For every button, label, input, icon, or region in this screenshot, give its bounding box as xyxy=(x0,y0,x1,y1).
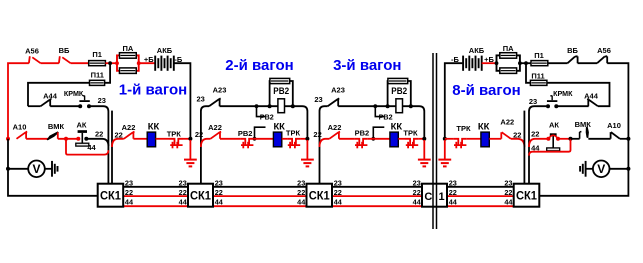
wire xyxy=(445,138,454,140)
svg-text:V: V xyxy=(597,162,605,176)
svg-text:А10: А10 xyxy=(13,123,27,132)
wire 23 - riser R' from KRMK to SK1 #5 xyxy=(529,106,546,184)
wire - P11 left lead to bus node xyxy=(526,63,530,83)
fuse block PA (two parallel fuses) xyxy=(117,55,139,70)
ground - car8 TRK xyxy=(444,140,446,159)
svg-text:ВБ: ВБ xyxy=(567,46,578,55)
wire - branch down to P11 xyxy=(105,63,111,83)
svg-text:СК1: СК1 xyxy=(516,189,537,203)
svg-text:РВ2: РВ2 xyxy=(238,129,253,138)
wire xyxy=(338,105,387,107)
contactor coil KK (car2) xyxy=(273,132,281,147)
thermal contact TRK (car8) xyxy=(454,139,467,145)
wire - riser L2 (car1 feed) xyxy=(111,111,113,184)
svg-text:А56: А56 xyxy=(597,46,611,55)
svg-text:44: 44 xyxy=(504,198,513,207)
button KRMK xyxy=(78,104,82,108)
switch A10 xyxy=(6,137,10,141)
svg-text:44: 44 xyxy=(413,198,422,207)
svg-text:22: 22 xyxy=(313,130,321,139)
svg-text:23: 23 xyxy=(449,178,457,187)
svg-text:КРМК: КРМК xyxy=(553,89,573,98)
wire xyxy=(301,138,308,140)
wire xyxy=(105,62,117,64)
wire xyxy=(526,62,531,64)
wire xyxy=(368,138,390,140)
svg-text:22: 22 xyxy=(449,188,457,197)
wire xyxy=(293,106,308,139)
switch A22 (car2) xyxy=(210,132,221,139)
button KRMK (right) xyxy=(546,104,550,108)
svg-text:АКБ: АКБ xyxy=(157,46,173,55)
voltmeter V (right) xyxy=(626,167,630,171)
svg-text:3-й вагон: 3-й вагон xyxy=(333,57,401,74)
svg-text:2-й вагон: 2-й вагон xyxy=(225,57,293,74)
svg-text:23: 23 xyxy=(529,97,537,106)
contactor coil KK (car1) xyxy=(147,132,155,147)
switch A22 (car8, mirrored) xyxy=(501,132,511,139)
relay RV2 (car3): resistor + coil xyxy=(388,81,411,106)
svg-text:А23: А23 xyxy=(331,86,345,95)
wire - left supply bus (red) from left edge column xyxy=(8,63,29,139)
wire xyxy=(467,138,481,140)
svg-text:П11: П11 xyxy=(531,71,544,80)
svg-text:СК1: СК1 xyxy=(309,189,330,203)
wire 44 bus (red) xyxy=(123,205,188,207)
svg-text:23: 23 xyxy=(98,96,106,105)
fuse block PA (right) xyxy=(497,55,520,70)
battery AKB xyxy=(154,56,156,71)
svg-text:РВ2: РВ2 xyxy=(379,113,393,122)
svg-text:КК: КК xyxy=(273,121,285,132)
contact RV2 (car3, wire23->wire22) xyxy=(375,106,384,116)
svg-text:П1: П1 xyxy=(92,50,102,59)
svg-text:ТРК: ТРК xyxy=(167,130,182,139)
svg-text:СК1: СК1 xyxy=(100,189,121,203)
wire 22 - AK to connector riser L1 xyxy=(86,139,108,146)
node - 44 tap xyxy=(64,137,68,141)
svg-text:ВМК: ВМК xyxy=(48,122,65,131)
svg-text:23: 23 xyxy=(413,178,421,187)
wire xyxy=(588,138,610,140)
voltmeter V (left) xyxy=(6,167,10,171)
svg-text:22: 22 xyxy=(195,130,203,139)
svg-text:44: 44 xyxy=(531,143,540,152)
svg-text:1-й вагон: 1-й вагон xyxy=(119,82,187,99)
node xyxy=(422,137,426,141)
svg-text:23: 23 xyxy=(334,178,342,187)
connector box SK1 #1 xyxy=(98,184,124,207)
node xyxy=(524,61,528,65)
connector AK (right, plugged) xyxy=(550,133,557,136)
ground - voltmeter left xyxy=(51,161,53,177)
svg-text:РВ2: РВ2 xyxy=(355,129,370,138)
svg-text:АК: АК xyxy=(549,121,559,130)
connector box SK1 #3 xyxy=(307,184,333,207)
svg-text:ТРК: ТРК xyxy=(456,124,471,133)
node xyxy=(626,137,630,141)
svg-text:КРМК: КРМК xyxy=(64,89,84,98)
svg-text:ВБ: ВБ xyxy=(59,46,70,55)
svg-text:44: 44 xyxy=(334,198,343,207)
wire 23 - riser to SK1 #3 and car3 wire 23 xyxy=(320,106,328,184)
svg-text:А10: А10 xyxy=(607,121,621,130)
wire xyxy=(254,138,274,140)
svg-text:С: С xyxy=(424,191,432,203)
wire xyxy=(557,105,589,107)
wire - battery return to car1 right column xyxy=(174,63,190,139)
wire - P11 row to A44 branch corner xyxy=(28,83,90,106)
wire xyxy=(419,138,425,140)
switch A23 (car2) xyxy=(209,98,221,106)
svg-text:СК1: СК1 xyxy=(190,189,211,203)
svg-text:-Б: -Б xyxy=(451,55,459,64)
svg-text:КК: КК xyxy=(148,121,160,132)
fuse P1 xyxy=(89,61,106,66)
node xyxy=(305,137,309,141)
svg-text:22: 22 xyxy=(179,188,187,197)
svg-text:23: 23 xyxy=(504,178,512,187)
wire xyxy=(220,105,270,107)
svg-text:ТРК: ТРК xyxy=(403,129,418,138)
switch A44 xyxy=(28,105,41,107)
wire 23 - KRMK to connector riser L1 xyxy=(89,106,108,184)
svg-text:А44: А44 xyxy=(584,92,599,101)
svg-text:44: 44 xyxy=(215,198,224,207)
svg-text:23: 23 xyxy=(314,95,322,104)
ground - car3 TRK xyxy=(423,140,425,159)
svg-text:22: 22 xyxy=(504,188,512,197)
wire - right column + bottom return to SK1 #5 xyxy=(539,139,628,196)
switch A22 (car1) xyxy=(124,132,135,139)
wire xyxy=(489,138,501,140)
svg-text:23: 23 xyxy=(125,178,133,187)
fuse P1 (right) xyxy=(531,61,548,66)
svg-text:44: 44 xyxy=(87,143,96,152)
wire - left column + bottom return to SK1 xyxy=(8,139,98,196)
wire 22 - red from riser R' to AK xyxy=(529,139,548,147)
svg-text:А56: А56 xyxy=(25,46,39,55)
svg-text:ВМК: ВМК xyxy=(575,120,592,129)
wire 22 - red branch from L2 to car1 xyxy=(112,139,124,147)
switch A22 (car3) xyxy=(329,132,340,139)
svg-text:РВ2: РВ2 xyxy=(273,86,289,97)
contactor coil KK (car8) xyxy=(481,132,489,147)
wire 22 bus (red) xyxy=(123,195,188,197)
wire 23 - riser to SK1 #2 and car2 wire 23 xyxy=(201,106,209,184)
wire xyxy=(339,138,355,140)
svg-text:РВ2: РВ2 xyxy=(391,86,407,97)
svg-text:22: 22 xyxy=(334,188,342,197)
breaker VB xyxy=(59,56,71,63)
battery AKB (right) xyxy=(462,56,464,71)
switch VMK (right, open thick blade) xyxy=(580,132,582,139)
wire xyxy=(26,138,49,140)
svg-text:А23: А23 xyxy=(213,86,227,95)
ground - car2 TRK xyxy=(306,140,308,159)
svg-text:1: 1 xyxy=(439,191,445,203)
wire xyxy=(558,138,571,140)
train break lines xyxy=(432,53,434,229)
contactor coil KK (car3) xyxy=(390,132,398,147)
contact RV2 (car2, wire23->wire22) xyxy=(257,106,266,116)
breaker VB (right) xyxy=(568,56,578,63)
wire - car8 left column from battery return xyxy=(445,63,463,139)
node - P1/P11 junction xyxy=(108,61,112,65)
wire xyxy=(183,138,190,140)
svg-text:23: 23 xyxy=(197,94,205,103)
svg-text:КК: КК xyxy=(478,121,490,132)
svg-text:А22: А22 xyxy=(208,123,222,132)
wire 22 - red from riser xyxy=(201,139,211,147)
wire xyxy=(578,62,598,64)
svg-text:22: 22 xyxy=(297,188,305,197)
svg-text:44: 44 xyxy=(297,198,306,207)
fuse P11 xyxy=(90,80,105,85)
svg-text:44: 44 xyxy=(179,198,188,207)
svg-text:22: 22 xyxy=(413,188,421,197)
wire xyxy=(220,138,241,140)
connector AK xyxy=(78,130,87,133)
relay RV2 (car2): resistor + coil xyxy=(270,81,293,106)
connector box SK1 #2 xyxy=(188,184,213,207)
wire xyxy=(620,138,629,140)
wire (+B red segment) xyxy=(482,62,497,64)
svg-text:ПА: ПА xyxy=(503,44,514,53)
svg-text:КК: КК xyxy=(391,121,403,132)
wire 22 - red into riser L2' (car8 feed) xyxy=(511,139,525,147)
wire 44 - red loop to connector riser L1 xyxy=(66,139,108,155)
wire xyxy=(571,138,580,140)
svg-text:23: 23 xyxy=(297,178,305,187)
node - 44 tap (right) xyxy=(569,137,573,141)
svg-text:А22: А22 xyxy=(122,123,136,132)
connector box SK1 #4 (С 1 at train break) xyxy=(422,184,447,207)
svg-text:А44: А44 xyxy=(43,91,58,100)
thermal contact TRK (car3) xyxy=(405,139,418,145)
wire - riser L2' to SK1 #5 xyxy=(523,111,525,184)
svg-text:22: 22 xyxy=(125,188,133,197)
svg-text:А22: А22 xyxy=(500,118,514,127)
connector box SK1 #5 xyxy=(514,184,540,207)
wire xyxy=(71,62,90,64)
contact RV2 (red, car3) xyxy=(355,139,368,145)
thermal contact TRK (car1) xyxy=(170,139,183,145)
wire xyxy=(58,138,79,140)
svg-text:АКБ: АКБ xyxy=(469,46,485,55)
svg-text:П1: П1 xyxy=(534,51,544,60)
breaker A56 (right) xyxy=(597,56,607,63)
switch A10 (right, mirrored) xyxy=(611,132,620,139)
thermal contact TRK (car2) xyxy=(287,139,300,145)
contact RV2 (red, car2) xyxy=(241,139,254,145)
wire xyxy=(520,62,526,64)
svg-text:ТРК: ТРК xyxy=(286,129,301,138)
node xyxy=(188,137,192,141)
svg-text:П11: П11 xyxy=(91,71,104,80)
wire xyxy=(41,62,59,64)
wire 22 - red from riser xyxy=(320,139,330,147)
svg-text:8-й вагон: 8-й вагон xyxy=(452,82,520,99)
wire xyxy=(411,106,425,139)
switch VMK (closed thick blade) xyxy=(47,131,59,140)
svg-text:44: 44 xyxy=(125,198,134,207)
svg-text:V: V xyxy=(32,162,40,176)
node xyxy=(443,137,447,141)
switch A44 (right, mirrored) xyxy=(587,99,598,106)
svg-text:РВ2: РВ2 xyxy=(260,113,274,122)
wire - bus to right edge column xyxy=(607,63,628,139)
svg-text:44: 44 xyxy=(449,198,458,207)
svg-text:23: 23 xyxy=(215,178,223,187)
wire xyxy=(156,138,170,140)
svg-text:А22: А22 xyxy=(328,123,342,132)
fuse P11 (right) xyxy=(530,80,547,85)
wire - A44 row to P11 corner xyxy=(547,83,610,106)
wire 44 - red loop into riser R' xyxy=(529,139,571,156)
wire xyxy=(50,105,80,107)
svg-text:ПА: ПА xyxy=(122,44,133,53)
svg-text:23: 23 xyxy=(179,178,187,187)
svg-text:22: 22 xyxy=(531,130,539,139)
wire xyxy=(398,138,405,140)
breaker A56 xyxy=(29,56,41,63)
svg-text:22: 22 xyxy=(215,188,223,197)
wire xyxy=(133,138,147,140)
svg-text:22: 22 xyxy=(95,129,103,138)
wire xyxy=(139,62,155,64)
svg-text:АК: АК xyxy=(77,120,87,129)
wire xyxy=(282,138,288,140)
ground - voltmeter right xyxy=(585,161,587,177)
wire 23 bus (black) xyxy=(123,186,188,188)
ground - car1 TRK xyxy=(189,140,191,159)
switch A23 (car3) xyxy=(328,98,340,106)
svg-text:22: 22 xyxy=(513,130,521,139)
